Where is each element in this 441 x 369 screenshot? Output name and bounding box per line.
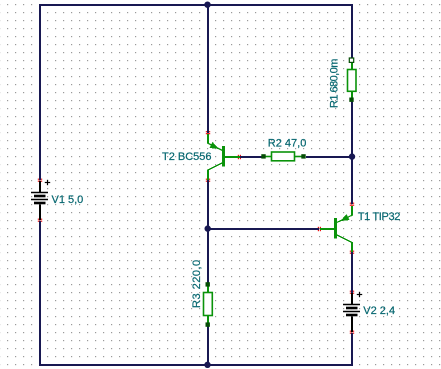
junction top node [204, 1, 210, 7]
transistor T1 (PNP TIP32) [320, 206, 352, 252]
wire T2 collector to node A [207, 180, 209, 229]
T2 base lead [225, 156, 240, 158]
T1 base lead [320, 228, 334, 230]
svg-text:V1 5,0: V1 5,0 [52, 194, 84, 206]
T2 pin marks [206, 132, 241, 182]
wire node A to R3 [207, 229, 209, 285]
wire left rail bottom + bottom rail + right rail from V2 [40, 221, 352, 365]
resistor R3 [204, 286, 213, 323]
T2 collector lead diagonal [208, 163, 223, 170]
R1 pin 2 square [349, 98, 353, 102]
battery V1 [31, 181, 48, 220]
wire top junction to T2 emitter [207, 5, 209, 133]
svg-text:R1 680,0m: R1 680,0m [328, 59, 340, 108]
T1 collector lead diagonal [337, 235, 352, 243]
V1 pin marks [38, 179, 42, 221]
wire right junction to T1 emitter [351, 157, 353, 204]
T1 emitter arrow [341, 215, 348, 221]
wire node A to T1 base [208, 228, 319, 230]
junction bottom node [204, 362, 210, 368]
T1 emitter lead vertical [351, 206, 353, 216]
T1 base bar [334, 218, 337, 239]
T2 emitter lead vertical [207, 134, 209, 144]
T1 collector lead vertical [351, 242, 353, 252]
R2 pin 1 square [261, 154, 265, 158]
svg-text:R2 47,0: R2 47,0 [268, 138, 307, 150]
T2 collector lead vertical [207, 170, 209, 180]
R1 pin 1 square [349, 58, 353, 62]
T1 emitter lead diagonal [337, 215, 352, 222]
R3 pin 2 square [206, 322, 210, 326]
resistor R2 [266, 152, 302, 161]
transistor T2 (PNP BC556) [208, 134, 240, 180]
wire R1 to right junction [351, 100, 353, 157]
wire R3 to bottom rail [207, 325, 209, 365]
wire R2 to right junction [306, 156, 352, 158]
R3 pin 1 square [206, 282, 210, 286]
battery V2 [343, 293, 360, 332]
wire T1 collector to V2 [351, 252, 353, 293]
junction right node [349, 153, 355, 159]
V1 plus sign [45, 180, 50, 185]
V2 pin marks [350, 291, 354, 333]
T2 emitter arrow [210, 143, 218, 149]
T2 base bar [222, 146, 225, 167]
svg-text:T2 BC556: T2 BC556 [162, 151, 212, 163]
svg-text:T1 TIP32: T1 TIP32 [358, 211, 400, 223]
resistor R1 [348, 62, 357, 98]
svg-text:V2 2,4: V2 2,4 [363, 305, 395, 317]
V2 plus sign [357, 292, 362, 297]
T1 pin marks [318, 203, 354, 253]
svg-text:R3 220,0: R3 220,0 [191, 259, 203, 308]
junction node A [205, 225, 211, 231]
wire T2 base to R2 [240, 156, 262, 158]
T2 emitter lead diagonal [208, 143, 223, 150]
R2 pin 2 square [301, 154, 305, 158]
wire left rail top + top rail + right rail to R1 [40, 5, 352, 180]
